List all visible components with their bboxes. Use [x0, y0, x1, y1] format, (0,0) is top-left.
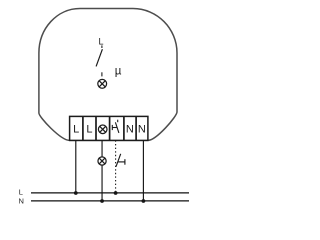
switch S2 (external wall switch symbol) [116, 154, 125, 167]
terminal divider 3 [109, 116, 111, 140]
wire W2 upper (terminal 3 to external lamp) [101, 140, 103, 157]
terminal divider 2 [95, 116, 97, 140]
svg-text:N: N [138, 124, 146, 136]
lamp E1 (internal output symbol circle-X) [98, 79, 107, 88]
wire W4 (terminal 6 N down to N mains) [142, 140, 144, 201]
junction dot W2/N [100, 199, 104, 203]
svg-text:µ: µ [115, 66, 122, 78]
terminal divider 5 [135, 116, 137, 140]
svg-text:L: L [73, 124, 79, 136]
wire (stub from contact to lamp symbol) [101, 72, 103, 76]
terminal divider 4 [123, 116, 125, 140]
svg-text:N: N [126, 124, 134, 136]
junction dot W3/L [114, 191, 118, 195]
net L (mains line) [31, 192, 189, 194]
svg-text:L: L [19, 188, 23, 197]
net N (mains line) [31, 200, 189, 202]
wire (stub from L to switch contact) [101, 45, 103, 48]
lamp E2 (external load circle-X) [98, 157, 106, 165]
junction dot W1/L [74, 191, 78, 195]
wire W3 (dotted, terminal 4 to wall switch and L mains) [115, 140, 117, 193]
wire W1 (terminal 1 L down to L mains) [75, 140, 77, 193]
terminal block X1 (outer box) [70, 116, 148, 140]
terminal 3 symbol (lamp output circle-X) [98, 125, 107, 134]
svg-text:L: L [98, 37, 103, 47]
svg-text:N: N [19, 196, 24, 205]
svg-text:L: L [86, 124, 92, 136]
terminal 4 symbol (switch input) [112, 120, 119, 133]
wire W2 lower (external lamp to N mains) [101, 165, 103, 201]
switch S1 (internal relay contact lever) [96, 49, 102, 66]
device outline (flush-mount box, rounded octagon) [39, 9, 177, 141]
junction dot W4/N [142, 199, 146, 203]
terminal divider 1 [82, 116, 84, 140]
